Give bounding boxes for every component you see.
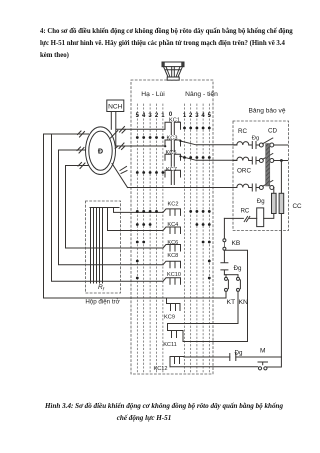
overcurrent relay coil RC row1 <box>237 142 249 145</box>
svg-text:KT: KT <box>227 299 236 306</box>
wire rotor brush 2 to KC8 row <box>59 150 164 265</box>
svg-text:4: 4 <box>201 113 205 119</box>
brush mark rotor 2 <box>77 147 84 153</box>
brush mark rotor 1 <box>78 131 85 137</box>
svg-text:CC: CC <box>292 203 302 210</box>
node KC3 exit junction <box>179 140 181 142</box>
contact KC12 <box>170 357 184 367</box>
wire fuse1 down to Đg coil <box>264 214 274 219</box>
contact KC4 <box>163 227 181 234</box>
svg-text:4: 4 <box>142 113 146 119</box>
wire Đg contact to right bus <box>236 356 282 358</box>
fuse CC 2 <box>279 193 284 213</box>
contact KC8 <box>163 261 181 268</box>
contact KC10 <box>163 278 181 285</box>
brake magnet NCH box <box>107 100 124 112</box>
fuse CC 1 <box>272 193 277 213</box>
knife switch CD pole3 <box>259 186 263 190</box>
wire KC12 bottom to M button <box>170 366 258 368</box>
dots KC4 <box>136 223 139 226</box>
wire NCH to stator line 2 <box>115 112 117 146</box>
wire KC9 to KT bottom <box>167 297 227 299</box>
brush mark rotor 3 <box>78 163 85 169</box>
svg-text:5: 5 <box>208 113 212 119</box>
wire NCH to stator line 1 <box>110 112 112 130</box>
svg-text:NCH: NCH <box>108 104 123 111</box>
svg-text:KC11: KC11 <box>163 342 177 348</box>
contact KC5 <box>165 154 237 166</box>
contact row labels <box>154 118 182 372</box>
contact KC2 <box>163 209 181 216</box>
knife switch CD pole1 <box>259 143 263 147</box>
svg-text:KN: KN <box>239 299 249 306</box>
overcurrent relay coil ORC row2 <box>237 157 249 160</box>
protection panel labels <box>227 107 302 356</box>
contact KN <box>237 277 240 280</box>
dots KC5 right 1-5 <box>183 156 186 159</box>
wire left bus 2 to KC10 row <box>52 134 164 281</box>
svg-text:Rf: Rf <box>98 284 105 293</box>
wire panel exit down to KB <box>223 218 225 238</box>
svg-text:KC4: KC4 <box>167 222 178 228</box>
wire stator phase diagonal to through line <box>112 164 128 188</box>
interlock contact KB <box>223 239 226 242</box>
chart heading labels <box>141 89 218 98</box>
svg-text:RC: RC <box>238 128 248 135</box>
svg-text:KC2: KC2 <box>168 202 179 208</box>
pushbutton M contact circles <box>258 367 261 370</box>
brush mark stator 2 <box>119 143 125 150</box>
wire stator phase to KC3 <box>115 146 165 149</box>
node bar above KT KN <box>224 274 238 276</box>
contactor Đg main contact row1 <box>249 142 259 149</box>
svg-text:KC3: KC3 <box>167 136 178 142</box>
contactor Đg main contact row2 <box>249 157 259 164</box>
wire node to fuse 2 <box>280 161 282 194</box>
wire KC11 top to KN bottom <box>168 323 239 325</box>
dots KC7 left 1-5 <box>136 171 139 174</box>
svg-text:KC7: KC7 <box>166 167 177 173</box>
contact KT <box>225 277 228 280</box>
svg-text:Đg: Đg <box>252 136 259 142</box>
svg-text:2: 2 <box>189 113 193 119</box>
resistor elements vertical <box>91 208 103 284</box>
wire KB down <box>223 250 225 262</box>
resistor tap to KC4 row <box>108 208 164 231</box>
wire KC5 row into panel <box>233 160 237 162</box>
wire KC3 row into panel <box>233 144 237 146</box>
node on pole2 wire <box>280 159 283 162</box>
controller chart dashed box <box>131 80 213 374</box>
contact KC11 <box>168 324 184 342</box>
knife switch CD pole2 <box>259 159 263 163</box>
dots KC8 <box>136 260 139 263</box>
contactor coil Đg <box>257 208 264 227</box>
svg-text:Hộp điện trở: Hộp điện trở <box>85 299 119 306</box>
closed-position dots <box>136 127 211 280</box>
brush mark stator 3 <box>120 167 127 174</box>
contact KC6 <box>163 245 181 252</box>
contact Đg seal-in ticks <box>230 354 236 361</box>
master controller handle <box>162 62 184 80</box>
wire KC11 bottom to KB branch <box>183 341 248 343</box>
svg-text:M: M <box>260 348 266 355</box>
svg-text:2: 2 <box>155 113 159 119</box>
svg-text:KC9: KC9 <box>164 314 175 320</box>
contactor Đg main contact row3 <box>249 184 259 191</box>
svg-text:RC: RC <box>241 209 250 215</box>
pushbutton M <box>258 362 268 365</box>
wire KC12 to Đg contact <box>184 356 230 358</box>
wire KB branch right <box>224 250 247 341</box>
dots KC10 <box>136 277 139 280</box>
wire through line KC7 row to protection panel <box>128 187 237 189</box>
wire stator phase to KC1 <box>111 129 166 138</box>
svg-text:Đg: Đg <box>235 350 243 357</box>
contact KC7 <box>165 170 181 184</box>
node KC3 feed junction <box>164 145 166 147</box>
svg-text:5: 5 <box>136 113 140 119</box>
position grid dashed columns <box>137 104 209 374</box>
svg-text:KC1: KC1 <box>169 118 180 124</box>
svg-text:1: 1 <box>183 113 187 119</box>
svg-text:KC6: KC6 <box>167 240 178 246</box>
wire rotor brush 1 to left bus <box>44 134 167 298</box>
svg-text:Bảng bảo vệ: Bảng bảo vệ <box>248 107 285 114</box>
resistor bank top bar <box>90 207 119 209</box>
motor Đ rotor ellipse <box>89 131 112 170</box>
knife switch linkage bar <box>266 144 270 187</box>
svg-text:Đg: Đg <box>257 199 265 205</box>
wire fuse2 down right bus <box>280 214 282 358</box>
brush mark stator 1 <box>120 127 126 134</box>
svg-text:Đg: Đg <box>234 265 242 272</box>
protection panel dashed box <box>233 121 289 231</box>
svg-text:KB: KB <box>232 240 241 247</box>
svg-text:KC8: KC8 <box>167 253 178 259</box>
svg-text:Đ: Đ <box>98 146 103 155</box>
contact KC9 <box>167 298 181 311</box>
wire pole3 to fuse 1 <box>273 188 275 194</box>
overcurrent relay coil row3 <box>237 184 249 187</box>
svg-text:CD: CD <box>268 128 278 135</box>
wire rotor brush 3 to KC6 row <box>66 166 164 249</box>
contactor aux contact Đg <box>221 263 228 275</box>
contact KC3 <box>165 140 237 152</box>
svg-text:Nâng - tiến: Nâng - tiến <box>185 89 218 98</box>
dots KC1 right 1-5 <box>183 127 186 130</box>
node KC5 exit junction <box>179 155 181 157</box>
svg-text:Hạ - Lùi: Hạ - Lùi <box>141 91 165 98</box>
dots KC6 <box>136 241 139 244</box>
svg-text:KC5: KC5 <box>166 150 177 156</box>
dots KC2 <box>136 210 139 213</box>
svg-text:3: 3 <box>195 113 199 119</box>
svg-text:KC10: KC10 <box>167 272 181 278</box>
contact KC1 <box>165 122 181 134</box>
resistor tap to KC2 row <box>114 208 164 213</box>
thermal contact RC (NC) <box>224 216 256 221</box>
svg-text:KC12: KC12 <box>154 366 168 372</box>
svg-text:1: 1 <box>161 113 165 119</box>
position numbers <box>136 112 212 119</box>
resistor box Rf dashed border <box>86 201 121 293</box>
svg-text:3: 3 <box>148 113 152 119</box>
svg-text:ORC: ORC <box>237 168 251 175</box>
dots KC3 left 1-5 <box>136 136 139 139</box>
motor Đ stator ellipse <box>86 127 116 175</box>
wire M to right bus <box>267 357 281 367</box>
